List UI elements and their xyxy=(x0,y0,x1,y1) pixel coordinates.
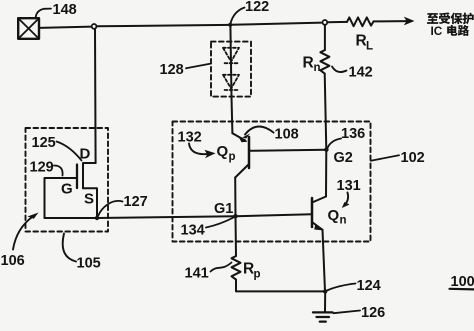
label 131 + arrow xyxy=(337,178,361,208)
wire node B to resistor RL xyxy=(327,21,347,23)
svg-text:G2: G2 xyxy=(334,150,353,166)
label 128 + leader xyxy=(160,62,211,78)
transistor Qp emitter (arrow into base, PNP) xyxy=(232,133,247,142)
node 127 (junction dot) xyxy=(95,216,99,220)
wire node 122 down through diode box xyxy=(230,25,232,133)
pad 148 (bond pad symbol) xyxy=(18,18,39,39)
transistor M1 (MOSFET 125): drain step xyxy=(83,163,96,188)
label 148 + leader xyxy=(36,2,77,19)
MOSFET source step xyxy=(83,188,97,218)
svg-text:134: 134 xyxy=(181,223,205,239)
label 136 + leader xyxy=(328,126,366,148)
ground xyxy=(313,312,333,321)
label 126 + leader xyxy=(334,305,386,321)
wire node B down to resistor Rn xyxy=(324,25,326,50)
svg-text:148: 148 xyxy=(53,2,77,18)
svg-text:141: 141 xyxy=(185,266,209,282)
svg-text:127: 127 xyxy=(124,194,148,210)
MOSFET gate lead xyxy=(45,178,78,218)
wire Qp base to node G2 xyxy=(249,150,326,151)
svg-text:p: p xyxy=(254,269,261,281)
wire node A to node 122 xyxy=(96,25,229,26)
label 122 + leader xyxy=(231,0,270,24)
label 129 + leader xyxy=(30,160,63,176)
svg-text:129: 129 xyxy=(30,160,54,176)
svg-text:128: 128 xyxy=(160,62,184,78)
node 122 (junction dot) xyxy=(228,23,232,27)
svg-text:p: p xyxy=(229,151,236,163)
transistor Qn collector xyxy=(312,197,326,203)
svg-text:IC: IC xyxy=(431,24,443,38)
resistor RL xyxy=(347,17,374,26)
svg-text:Q: Q xyxy=(217,143,229,160)
svg-text:G1: G1 xyxy=(214,201,233,217)
svg-text:136: 136 xyxy=(341,126,365,142)
svg-text:124: 124 xyxy=(357,278,381,294)
svg-text:102: 102 xyxy=(401,150,425,166)
label Qn xyxy=(328,207,347,227)
label 100 (figure number) xyxy=(450,274,474,290)
MOSFET gate bar xyxy=(76,165,78,189)
svg-text:131: 131 xyxy=(337,178,361,194)
dashed box 105 (trigger device) xyxy=(26,128,109,232)
node G2 (junction dot) xyxy=(324,148,328,152)
svg-text:125: 125 xyxy=(32,135,56,151)
wire node G2 down to Qn collector xyxy=(325,150,327,197)
label 105 + leader xyxy=(63,234,101,272)
label 134 + leader xyxy=(181,218,234,239)
diode D2 (dashed, in series) xyxy=(223,75,239,90)
svg-text:n: n xyxy=(314,62,321,74)
label 124 + leader xyxy=(327,278,381,294)
diode D1 (dashed, anode top) xyxy=(223,48,239,63)
node G1 (junction dot) xyxy=(233,214,237,218)
label Rp xyxy=(243,261,261,281)
svg-text:108: 108 xyxy=(275,127,299,143)
svg-text:106: 106 xyxy=(1,253,25,269)
node A (open junction at x=94) xyxy=(92,24,97,29)
wire Qn emitter down to node 124 xyxy=(323,230,326,292)
transistor Qn base bar xyxy=(311,198,314,227)
wire Rp to bottom rail xyxy=(236,280,325,292)
svg-text:S: S xyxy=(84,191,94,208)
wire node A down to MOSFET drain xyxy=(94,29,97,163)
label: Chinese 至受保护 (to protected) xyxy=(427,12,474,24)
wire node 124 to ground xyxy=(324,291,326,312)
resistor Rn 142 xyxy=(320,50,329,74)
svg-text:100: 100 xyxy=(451,274,474,290)
wire node G1 down to resistor Rp xyxy=(235,216,238,256)
svg-text:L: L xyxy=(366,41,373,53)
label 106 + arrow xyxy=(1,213,39,270)
label 141 + leader xyxy=(185,263,232,282)
node 124 (junction dot) xyxy=(323,289,327,293)
transistor Qn emitter (arrow out, NPN) xyxy=(312,222,323,230)
svg-text:122: 122 xyxy=(245,0,269,15)
label 108 + leader xyxy=(242,127,299,143)
svg-text:G: G xyxy=(61,181,73,198)
svg-text:105: 105 xyxy=(77,256,101,272)
svg-text:142: 142 xyxy=(349,65,373,81)
wire RL to output arrow xyxy=(374,20,407,22)
transistor Qp base bar xyxy=(248,137,251,168)
output arrowhead (to protected IC) xyxy=(404,17,415,26)
label 142 + leader xyxy=(332,65,373,81)
dashed box 102 (SCR core) xyxy=(173,122,371,242)
label Qp xyxy=(217,143,236,163)
svg-text:R: R xyxy=(303,55,314,72)
resistor Rp 141 xyxy=(232,256,241,280)
svg-text:Q: Q xyxy=(328,207,340,224)
transistor Qp collector xyxy=(235,164,249,178)
wire Rn to node G2 xyxy=(325,74,327,150)
label 127 + leader xyxy=(98,194,148,216)
wire pad to node A xyxy=(39,27,92,28)
node B (open junction at x=325) xyxy=(323,20,328,25)
label: IC 电路 (IC circuit) xyxy=(431,24,470,38)
label 132 + arrow xyxy=(178,130,216,159)
svg-text:n: n xyxy=(340,215,347,227)
wire source bottom rail to node G1 xyxy=(45,214,312,218)
wire Qp collector to node G1 xyxy=(234,178,236,217)
svg-text:126: 126 xyxy=(361,305,385,321)
wire node 122 to node B xyxy=(231,23,323,25)
dashed box 128 (optional diode clamp) xyxy=(211,42,251,97)
label Rn xyxy=(303,55,321,75)
label 125 + leader xyxy=(32,135,82,161)
label 102 + leader xyxy=(371,150,425,166)
label RL xyxy=(356,33,374,53)
